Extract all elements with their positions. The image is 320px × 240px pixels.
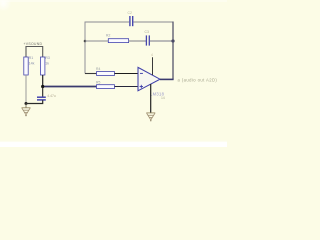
wire R4 to op-amp inverting input (115, 73, 139, 75)
wire top feedback right segment (134, 21, 174, 23)
ground (op-amp) (146, 113, 155, 122)
wire R3 bottom to divider node (42, 75, 44, 87)
wire between R2 and C3 (129, 40, 146, 42)
wire left vertical of feedback loop (84, 22, 86, 74)
wire inverting input row left segment (85, 73, 97, 75)
svg-text:14: 14 (161, 96, 165, 100)
svg-text:C2: C2 (128, 11, 132, 15)
wire C3 to right vertical (150, 40, 173, 42)
node junction at left vertical / R2 row (84, 40, 87, 43)
wire divider node to C4 (42, 87, 44, 97)
svg-text:14k: 14k (29, 61, 35, 65)
wire op-amp output (160, 78, 174, 80)
wire C4 bottom to ground node (26, 100, 43, 103)
wire top feedback left segment (85, 21, 129, 23)
wire R1 bottom to ground node (25, 75, 27, 104)
resistor R1 (24, 56, 35, 75)
svg-text:R5: R5 (96, 81, 100, 85)
op-amp power pin top (152, 57, 154, 75)
resistor R3 (41, 56, 50, 75)
svg-text:4.47u: 4.47u (47, 94, 56, 98)
svg-text:R2: R2 (106, 34, 110, 38)
svg-text:4: 4 (151, 53, 153, 57)
node junction at right vertical / R2 row (171, 39, 174, 42)
capacitor C4 (37, 94, 56, 100)
wire divider top hat (26, 47, 43, 58)
node junction divider node (41, 85, 44, 88)
op-amp U1 (138, 67, 165, 96)
op-amp power pin bottom (150, 84, 152, 113)
svg-text:1k: 1k (45, 61, 49, 65)
svg-text:R1: R1 (29, 56, 34, 60)
wire R2 row left segment (85, 40, 108, 42)
resistor R2 (106, 34, 129, 43)
capacitor C3 (145, 30, 150, 46)
svg-text:a (audio out A2D): a (audio out A2D) (178, 77, 218, 82)
capacitor C2 (128, 11, 133, 26)
resistor R4 (96, 67, 115, 75)
svg-text:R4: R4 (96, 67, 100, 71)
wire R5 to op-amp non-inverting input (115, 86, 139, 88)
svg-text:R3: R3 (45, 56, 50, 60)
svg-text:C3: C3 (145, 30, 149, 34)
svg-text:+VSOUND: +VSOUND (24, 42, 43, 46)
resistor R5 (96, 81, 115, 89)
sheet background (0, 0, 227, 147)
ground (left) (22, 104, 31, 117)
node junction ground node (25, 102, 28, 105)
white page band below sheet (0, 142, 227, 147)
wire right vertical feedback (172, 22, 174, 80)
wire non-inverting row from divider node (43, 86, 97, 88)
